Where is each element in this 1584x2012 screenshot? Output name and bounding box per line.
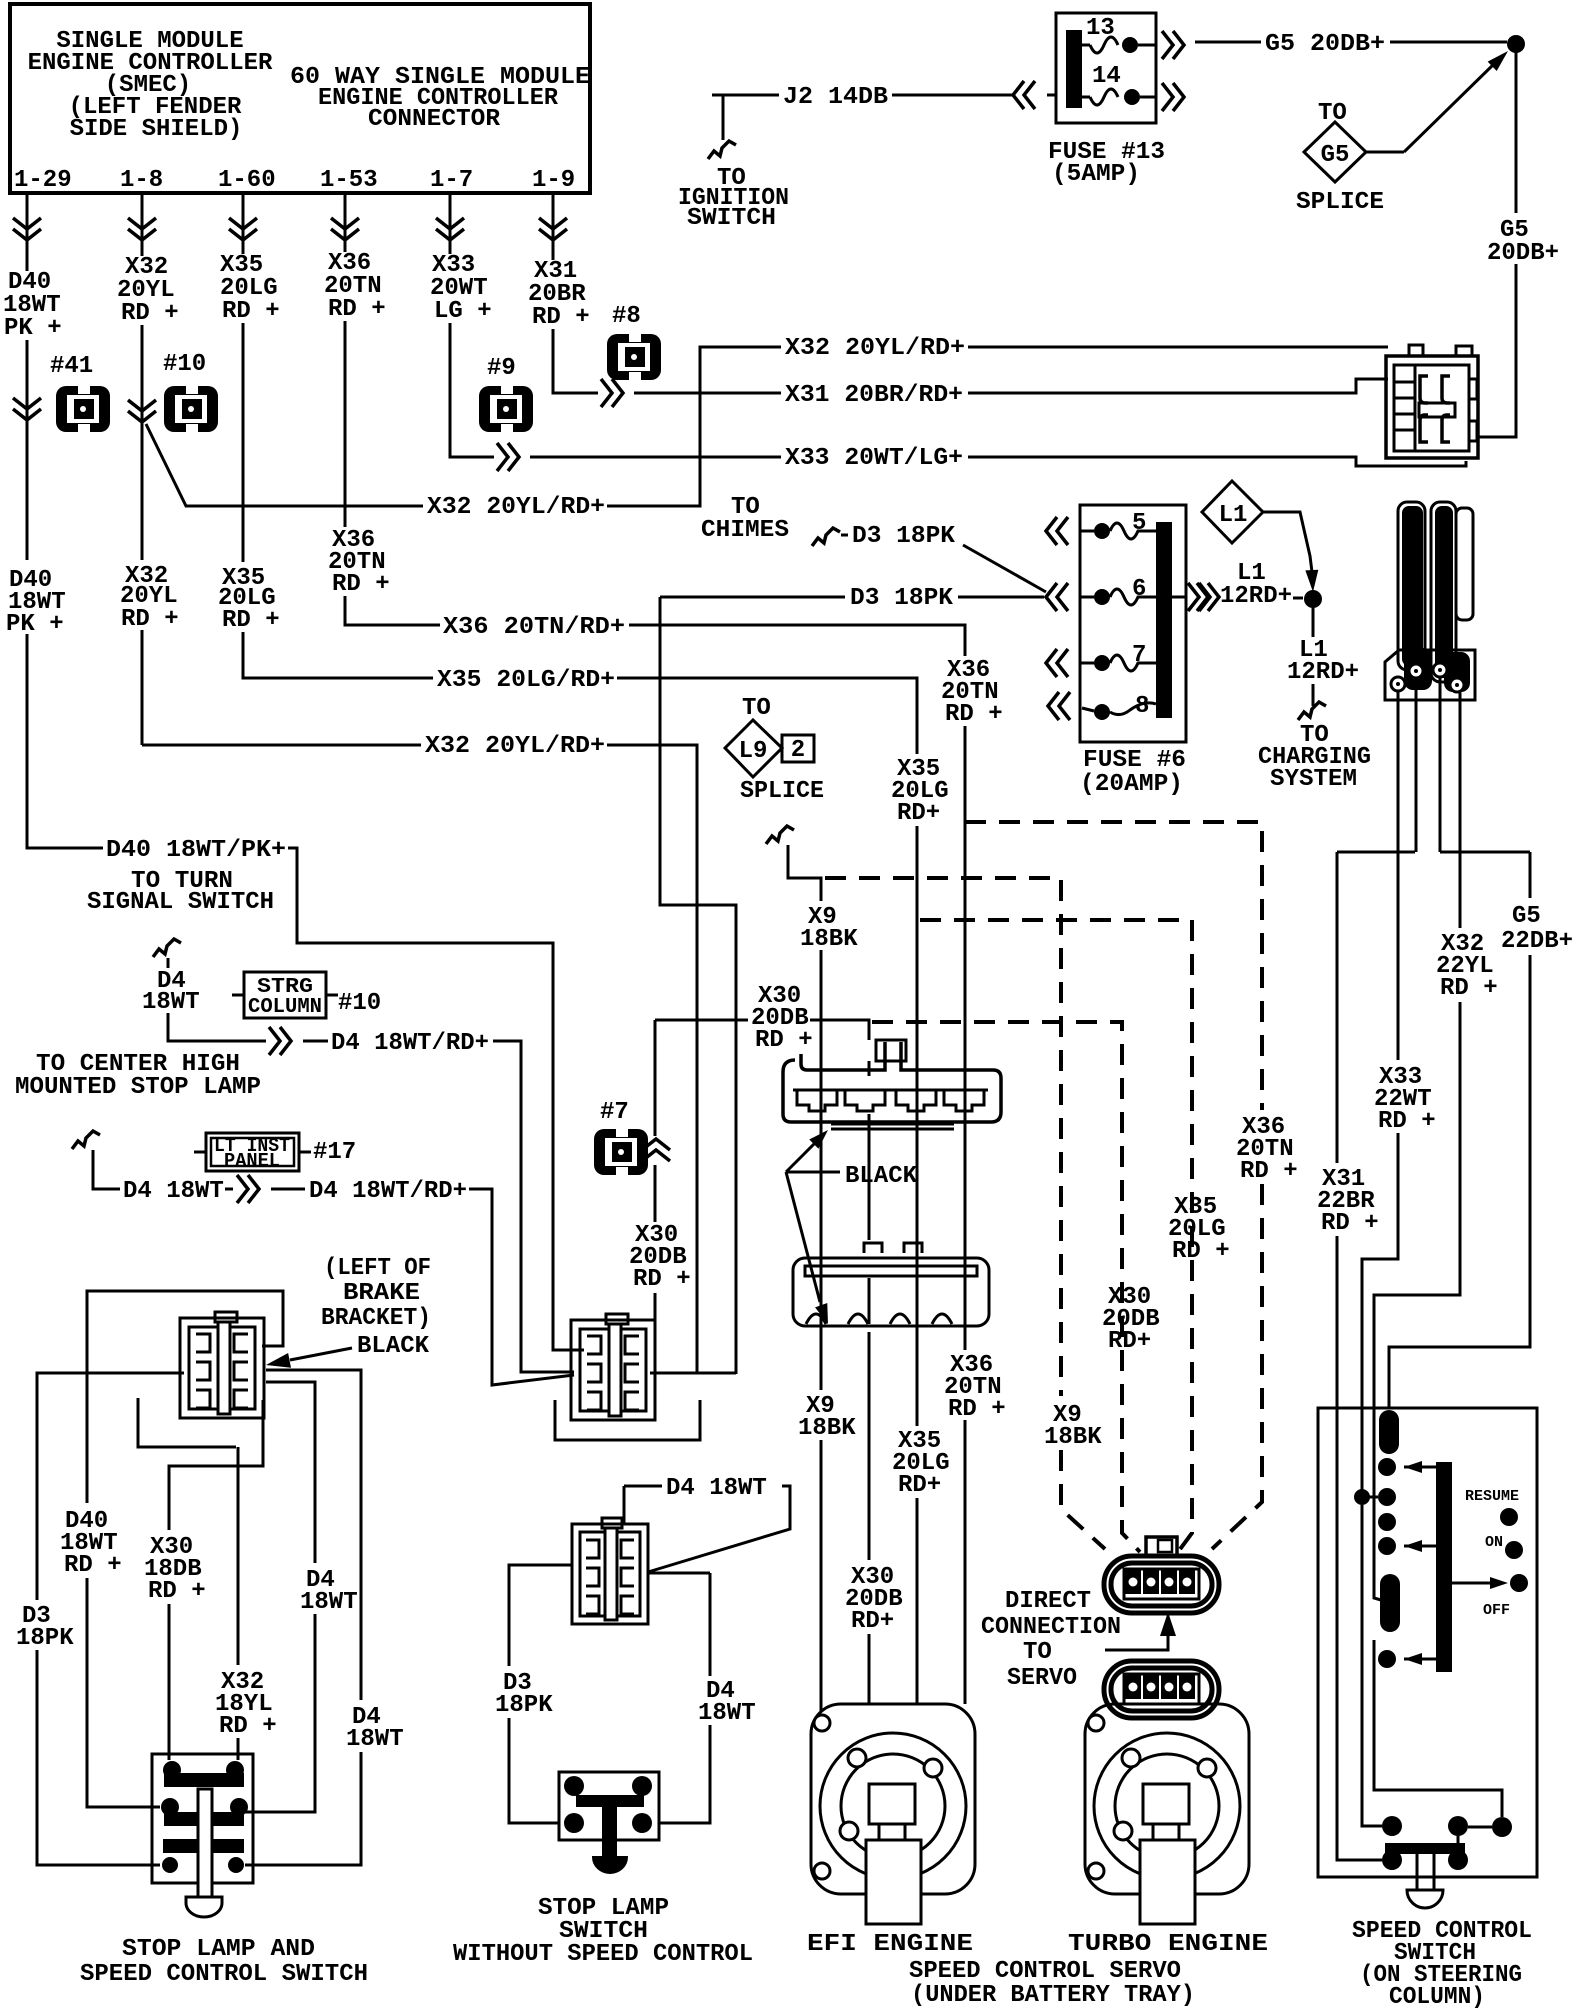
svg-text:RD+: RD+ [851,1608,894,1635]
svg-text:RD +: RD + [64,1552,122,1579]
svg-text:#9: #9 [487,355,516,382]
svg-text:RESUME: RESUME [1465,1488,1519,1505]
svg-text:G5 20DB+: G5 20DB+ [1265,31,1385,58]
svg-text:6: 6 [1132,576,1146,603]
svg-text:WITHOUT SPEED CONTROL: WITHOUT SPEED CONTROL [453,1941,753,1968]
svg-text:X31 20BR/RD+: X31 20BR/RD+ [785,382,963,409]
svg-text:CHIMES: CHIMES [701,517,789,544]
svg-text:20DB+: 20DB+ [1487,240,1559,267]
svg-text:LG +: LG + [434,298,492,325]
svg-text:SIGNAL SWITCH: SIGNAL SWITCH [87,889,274,916]
svg-text:RD +: RD + [121,606,179,633]
svg-text:18WT: 18WT [698,1700,756,1727]
svg-text:PK +: PK + [4,315,62,342]
svg-text:L9: L9 [739,738,768,765]
svg-text:#8: #8 [612,303,641,330]
svg-text:18PK: 18PK [495,1692,553,1719]
svg-text:L1: L1 [1219,502,1248,529]
svg-text:18PK: 18PK [16,1625,74,1652]
svg-text:18WT: 18WT [300,1589,358,1616]
svg-text:DIRECT: DIRECT [1005,1588,1091,1615]
svg-text:J2 14DB: J2 14DB [783,84,888,111]
svg-text:#7: #7 [600,1099,629,1126]
svg-text:(LEFT OF: (LEFT OF [324,1255,431,1282]
svg-text:G5: G5 [1321,142,1350,169]
svg-text:MOUNTED STOP LAMP: MOUNTED STOP LAMP [15,1074,261,1101]
svg-text:RD +: RD + [332,571,390,598]
svg-text:BLACK: BLACK [845,1163,918,1190]
svg-text:RD +: RD + [532,304,590,331]
svg-text:CONNECTION: CONNECTION [981,1614,1121,1641]
svg-text:BRACKET): BRACKET) [321,1305,431,1332]
svg-text:(UNDER BATTERY TRAY): (UNDER BATTERY TRAY) [911,1982,1195,2009]
svg-text:RD+: RD+ [1108,1328,1151,1355]
svg-text:RD +: RD + [1440,975,1498,1002]
svg-text:18WT: 18WT [346,1726,404,1753]
svg-text:STOP LAMP AND: STOP LAMP AND [122,1936,315,1963]
svg-text:1-53: 1-53 [320,167,378,194]
svg-text:1-29: 1-29 [14,167,72,194]
svg-text:1-60: 1-60 [218,167,276,194]
svg-text:18BK: 18BK [798,1415,856,1442]
svg-text:RD +: RD + [328,296,386,323]
svg-text:EFI ENGINE: EFI ENGINE [807,1931,973,1958]
svg-text:TO: TO [1023,1639,1052,1666]
svg-text:18BK: 18BK [1044,1424,1102,1451]
svg-text:5: 5 [1132,510,1146,537]
svg-text:ON: ON [1485,1534,1503,1551]
svg-text:12RD+: 12RD+ [1220,583,1292,610]
svg-text:1-7: 1-7 [430,167,473,194]
svg-text:#17: #17 [313,1139,356,1166]
svg-text:PANEL: PANEL [224,1150,280,1172]
svg-text:SPLICE: SPLICE [1296,189,1384,216]
svg-text:SPLICE: SPLICE [740,778,824,805]
svg-text:8: 8 [1135,693,1149,720]
svg-text:RD+: RD+ [898,1472,941,1499]
svg-text:18BK: 18BK [800,926,858,953]
svg-text:#10: #10 [338,990,381,1017]
svg-text:X32 20YL/RD+: X32 20YL/RD+ [785,335,965,362]
svg-text:RD +: RD + [219,1713,277,1740]
svg-text:COLUMN): COLUMN) [1389,1984,1485,2011]
svg-text:D4 18WT: D4 18WT [666,1475,767,1502]
svg-text:SPEED CONTROL SERVO: SPEED CONTROL SERVO [909,1958,1181,1985]
svg-text:1-9: 1-9 [532,167,575,194]
svg-text:X35 20LG/RD+: X35 20LG/RD+ [437,667,615,694]
svg-text:(20AMP): (20AMP) [1080,771,1183,798]
svg-text:TO: TO [742,695,771,722]
svg-text:G5: G5 [1512,903,1541,930]
svg-text:X32 20YL/RD+: X32 20YL/RD+ [427,494,605,521]
svg-text:PK +: PK + [6,611,64,638]
svg-text:SYSTEM: SYSTEM [1270,766,1357,793]
svg-text:#41: #41 [50,353,93,380]
svg-text:TURBO ENGINE: TURBO ENGINE [1068,1931,1268,1958]
svg-text:X36 20TN/RD+: X36 20TN/RD+ [443,614,625,641]
svg-text:BRAKE: BRAKE [343,1280,420,1307]
svg-text:(5AMP): (5AMP) [1052,161,1140,188]
svg-text:COLUMN: COLUMN [248,996,322,1019]
svg-text:#10: #10 [163,351,206,378]
svg-text:14: 14 [1092,63,1121,90]
svg-text:1-8: 1-8 [120,167,163,194]
svg-text:RD +: RD + [1172,1238,1230,1265]
svg-text:RD+: RD+ [897,800,940,827]
svg-text:FUSE #6: FUSE #6 [1083,747,1186,774]
svg-text:D3 18PK: D3 18PK [852,523,956,550]
svg-text:RD +: RD + [222,298,280,325]
svg-text:RD +: RD + [222,607,280,634]
svg-text:BLACK: BLACK [357,1333,430,1360]
svg-text:SIDE SHIELD): SIDE SHIELD) [70,116,243,143]
svg-text:X32 20YL/RD+: X32 20YL/RD+ [425,733,605,760]
svg-text:RD +: RD + [633,1266,691,1293]
svg-text:D4 18WT: D4 18WT [123,1178,224,1205]
svg-text:RD +: RD + [1240,1158,1298,1185]
svg-text:RD +: RD + [1378,1108,1436,1135]
svg-text:X33 20WT/LG+: X33 20WT/LG+ [785,445,963,472]
svg-text:D4 18WT/RD+: D4 18WT/RD+ [309,1178,467,1205]
svg-text:SWITCH: SWITCH [687,205,776,232]
svg-text:SERVO: SERVO [1007,1665,1077,1692]
svg-text:22DB+: 22DB+ [1501,928,1573,955]
svg-text:RD +: RD + [148,1578,206,1605]
svg-text:7: 7 [1132,642,1146,669]
svg-text:D3 18PK: D3 18PK [850,585,954,612]
svg-text:SPEED CONTROL SWITCH: SPEED CONTROL SWITCH [80,1961,368,1988]
svg-text:D4 18WT/RD+: D4 18WT/RD+ [331,1030,489,1057]
svg-text:RD +: RD + [945,701,1003,728]
svg-text:RD +: RD + [755,1027,813,1054]
svg-text:RD +: RD + [121,300,179,327]
svg-text:RD +: RD + [1321,1210,1379,1237]
svg-text:CONNECTOR: CONNECTOR [368,106,501,133]
svg-text:12RD+: 12RD+ [1287,659,1359,686]
svg-text:D40 18WT/PK+: D40 18WT/PK+ [106,837,286,864]
svg-text:2: 2 [791,737,805,764]
svg-text:RD +: RD + [948,1396,1006,1423]
svg-text:OFF: OFF [1483,1602,1510,1619]
svg-text:18WT: 18WT [142,989,200,1016]
